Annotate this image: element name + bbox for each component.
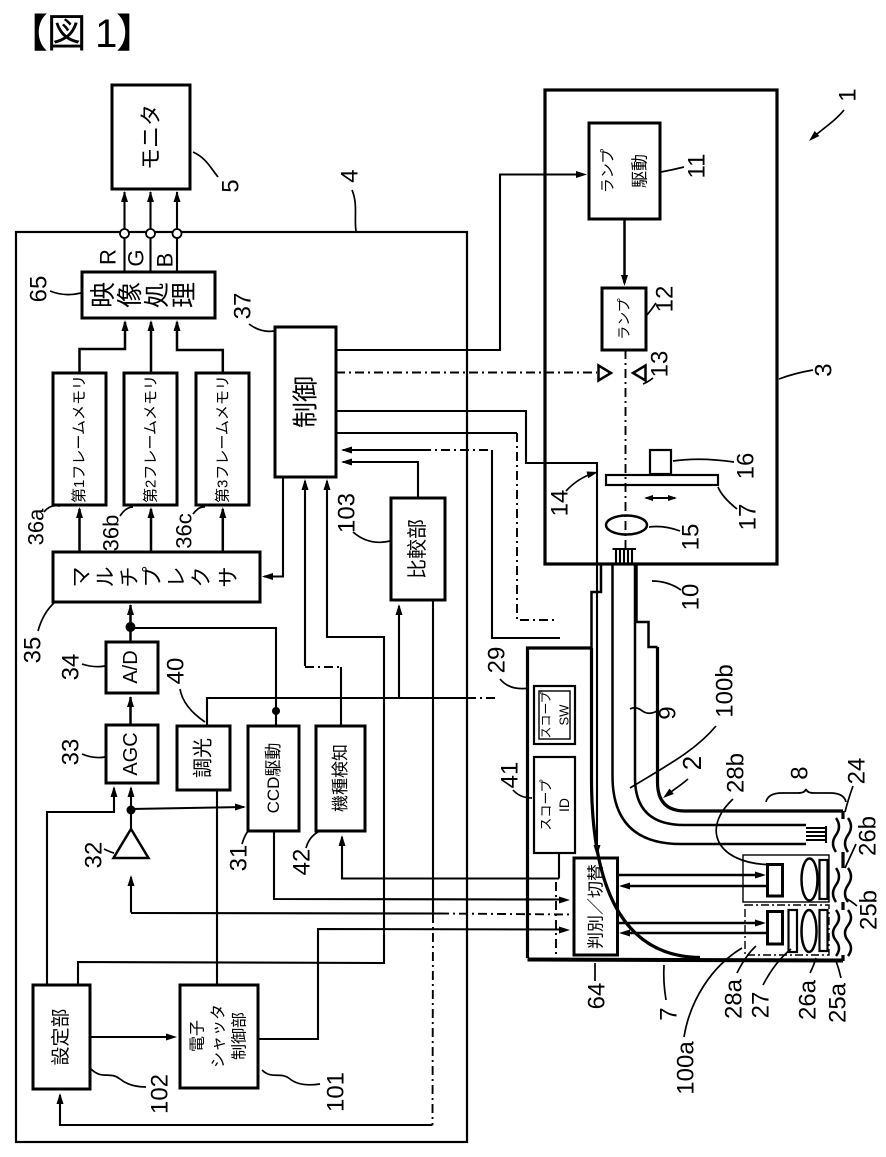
CCD 28b — [768, 865, 783, 897]
svg-text:33: 33 — [58, 739, 85, 766]
svg-text:チ: チ — [119, 567, 142, 588]
svg-text:第1フレームメモリ: 第1フレームメモリ — [70, 375, 88, 503]
wire memory1 to video processing — [80, 322, 126, 373]
wire control scope-sw line a — [336, 432, 517, 434]
scope switch box 29 スコープSW — [534, 686, 575, 744]
distal end face segments — [841, 811, 844, 819]
wire control to lamp drive — [336, 175, 584, 351]
svg-text:65: 65 — [26, 276, 53, 303]
svg-text:A/D: A/D — [120, 650, 142, 683]
svg-text:ク: ク — [191, 567, 214, 588]
shutter control box 101 電子シャッタ制御部 — [180, 985, 258, 1088]
control box 37 制御 — [275, 327, 336, 477]
svg-text:G: G — [124, 249, 149, 266]
wire comparator input tap — [398, 606, 400, 698]
svg-text:13: 13 — [647, 351, 674, 378]
node contact — [173, 229, 182, 238]
AD converter box 34 — [106, 642, 158, 693]
optical unit a boundary 100a — [745, 905, 829, 955]
AGC box 33 — [106, 725, 158, 783]
wire dimming to shutter control — [216, 790, 218, 985]
svg-text:27: 27 — [748, 992, 775, 1019]
condenser lens 15 — [606, 516, 647, 535]
svg-text:ル: ル — [95, 567, 118, 588]
scope plug light guide hatch — [613, 548, 637, 550]
svg-text:37: 37 — [230, 293, 257, 320]
video processing box 65 映像処理 — [82, 272, 215, 318]
svg-text:モニタ: モニタ — [139, 104, 164, 170]
svg-text:機種検知: 機種検知 — [331, 744, 350, 812]
svg-text:41: 41 — [497, 762, 524, 789]
lens 26b — [802, 859, 818, 901]
svg-text:第3フレームメモリ: 第3フレームメモリ — [213, 375, 231, 503]
svg-text:ランプ: ランプ — [600, 149, 617, 194]
svg-text:100a: 100a — [673, 1041, 700, 1095]
svg-text:26a: 26a — [795, 979, 822, 1020]
frame memory box 36b 第2フレームメモリ — [124, 373, 177, 505]
comparator box 103 比較部 — [391, 498, 445, 600]
wire AD video tap to CCD drive — [131, 628, 277, 726]
model detect box 42 機種検知 — [316, 726, 365, 831]
svg-text:電子: 電子 — [189, 1020, 207, 1052]
wire CCD drive to discriminator — [274, 831, 566, 900]
monitor box 5 — [112, 85, 190, 189]
wire comparator to control — [343, 462, 418, 498]
svg-text:10: 10 — [678, 584, 705, 611]
scope cord inner light guide lines — [635, 565, 806, 825]
lens 26a — [802, 910, 817, 952]
svg-text:理: 理 — [169, 282, 199, 308]
svg-text:8: 8 — [787, 766, 814, 779]
svg-text:16: 16 — [733, 453, 760, 480]
svg-text:35: 35 — [20, 637, 47, 664]
scope plug outline 10 — [592, 564, 602, 648]
svg-text:処: 処 — [142, 282, 172, 308]
svg-text:第2フレームメモリ: 第2フレームメモリ — [142, 375, 160, 503]
svg-text:11: 11 — [684, 154, 711, 179]
svg-text:15: 15 — [678, 524, 705, 551]
scope id box 41 スコープID — [534, 757, 575, 853]
svg-text:設定部: 設定部 — [50, 1008, 72, 1065]
iris arrows 13 — [599, 366, 612, 381]
svg-text:25a: 25a — [825, 982, 852, 1023]
svg-text:103: 103 — [334, 493, 361, 533]
svg-text:102: 102 — [147, 1074, 174, 1114]
lamp drive box 11 ランプ駆動 — [589, 123, 660, 219]
svg-text:4: 4 — [337, 169, 364, 182]
svg-text:R: R — [96, 249, 121, 265]
scope bottom edge 7 — [528, 960, 844, 961]
wire CCD signal to amp — [131, 912, 440, 915]
iris motor 16 — [650, 450, 671, 474]
svg-text:40: 40 — [163, 658, 190, 685]
wire control to multiplexer — [264, 477, 283, 577]
wire amp junction to CCD drive — [131, 807, 244, 809]
wire video level line — [207, 698, 467, 726]
svg-text:スコープ: スコープ — [539, 691, 553, 738]
wire amp out junction — [127, 806, 136, 815]
wire CCD 28b to discriminator — [623, 885, 766, 888]
CCD 28a — [768, 912, 783, 945]
lamp box 12 ランプ — [602, 288, 646, 350]
scope connector housing — [528, 648, 592, 958]
svg-text:駆動: 駆動 — [631, 154, 650, 188]
filter 27 — [789, 910, 798, 952]
multiplexer box 35 マルチプレクサ — [53, 552, 260, 602]
scope cord walls 9 — [658, 647, 844, 811]
svg-text:調光: 調光 — [192, 738, 215, 778]
wire AGC to AD — [129, 697, 132, 725]
svg-text:3: 3 — [811, 363, 838, 376]
wire RGB to monitor — [149, 192, 151, 272]
svg-text:36a: 36a — [24, 508, 49, 545]
wire memory2 to video processing — [150, 322, 153, 373]
iris plate 17 — [606, 475, 718, 485]
svg-text:100b: 100b — [712, 664, 739, 717]
svg-text:32: 32 — [81, 842, 108, 869]
wire scope-sw line b to control — [343, 449, 422, 451]
svg-text:12: 12 — [652, 286, 679, 313]
svg-text:像: 像 — [115, 282, 145, 308]
iris move arrows — [646, 497, 675, 499]
svg-text:9: 9 — [655, 706, 682, 719]
svg-text:7: 7 — [656, 1007, 683, 1020]
wire AD to multiplexer with junction — [129, 605, 132, 642]
svg-text:CCD駆動: CCD駆動 — [264, 743, 283, 814]
wire RGB to monitor — [176, 192, 178, 272]
svg-text:制御部: 制御部 — [231, 1012, 249, 1060]
svg-text:ランプ: ランプ — [616, 298, 632, 340]
svg-text:スコープ: スコープ — [539, 779, 554, 830]
frame memory box 36a 第1フレームメモリ — [53, 373, 106, 505]
frame memory box 36c 第3フレームメモリ — [196, 373, 249, 505]
svg-text:29: 29 — [484, 647, 511, 674]
wire scope id net to control — [78, 481, 384, 985]
wire memory3 to video processing — [177, 322, 223, 373]
node dot on CCD drive line — [272, 707, 280, 715]
svg-text:B: B — [153, 253, 178, 268]
node contact — [146, 229, 155, 238]
svg-text:31: 31 — [226, 845, 253, 872]
svg-text:36b: 36b — [99, 515, 124, 552]
svg-text:101: 101 — [323, 1072, 350, 1112]
wire control to discriminator top — [336, 411, 597, 853]
wire discriminator to CCD 28a — [618, 922, 763, 925]
svg-text:26b: 26b — [855, 816, 882, 856]
svg-text:64: 64 — [584, 983, 611, 1010]
svg-text:1: 1 — [835, 88, 862, 101]
wire scope id branch to model detect — [342, 837, 559, 879]
amplifier 32 — [114, 829, 149, 858]
svg-text:比較部: 比較部 — [406, 519, 429, 579]
wire setting to AGC — [47, 788, 114, 985]
setting box 102 設定部 — [33, 985, 90, 1089]
svg-text:プ: プ — [142, 567, 165, 588]
node contact — [120, 229, 129, 238]
svg-text:36c: 36c — [172, 513, 197, 548]
svg-text:レ: レ — [166, 567, 189, 588]
svg-text:AGC: AGC — [120, 732, 142, 775]
svg-text:【図 1】: 【図 1】 — [8, 12, 156, 56]
processor unit box 4 — [16, 232, 467, 1142]
light guide exit hatch — [825, 826, 827, 843]
svg-text:25b: 25b — [856, 890, 883, 930]
svg-text:2: 2 — [677, 756, 707, 770]
svg-text:34: 34 — [58, 654, 85, 681]
svg-text:判別／切替: 判別／切替 — [587, 864, 606, 949]
wire multiplexer to memory — [78, 509, 81, 552]
svg-text:28a: 28a — [721, 978, 748, 1019]
wire model detect to control dash-dot — [304, 481, 306, 666]
wire comparator output to setting — [432, 600, 434, 914]
svg-text:ID: ID — [556, 798, 572, 812]
svg-text:制御: 制御 — [291, 376, 321, 428]
svg-text:SW: SW — [557, 704, 572, 726]
discriminator box 64 判別／切替 — [574, 858, 618, 955]
svg-text:17: 17 — [735, 504, 762, 531]
dimming box 40 調光 — [177, 726, 230, 790]
node junction dot — [126, 622, 136, 632]
svg-text:5: 5 — [218, 179, 245, 192]
svg-text:24: 24 — [844, 758, 871, 785]
window 25a — [820, 910, 828, 951]
wire amp input — [130, 877, 132, 913]
CCD drive box 31 CCD駆動 — [248, 726, 299, 831]
svg-text:マ: マ — [71, 567, 94, 588]
body cavity wall 24 wavy — [833, 818, 839, 852]
svg-text:映: 映 — [88, 282, 118, 308]
window 25b — [820, 860, 828, 899]
optical axis dash-dot — [625, 350, 627, 549]
wire shutter control to discriminator — [258, 929, 566, 1039]
scope outer bend wall — [592, 648, 701, 958]
svg-text:42: 42 — [289, 849, 316, 876]
wire RGB to monitor — [123, 192, 125, 272]
wire control dimming dash-dot to iris arrows 13 — [336, 372, 597, 374]
wire scope id box stub — [558, 853, 560, 879]
contact boundary dash-dot — [555, 882, 557, 957]
svg-text:サ: サ — [218, 567, 241, 588]
wire multiplexer to memory — [150, 509, 153, 552]
svg-text:28b: 28b — [723, 753, 750, 793]
wire CCD 28a to discriminator — [623, 932, 766, 935]
optical unit b boundary 100b — [743, 855, 829, 902]
svg-text:14: 14 — [547, 490, 574, 517]
wire lamp drive to lamp — [623, 219, 626, 283]
wire setting to shutter control — [90, 1036, 174, 1038]
wire multiplexer to memory — [222, 509, 225, 552]
light source box 3 — [545, 90, 777, 564]
svg-text:シャッタ: シャッタ — [210, 1004, 228, 1068]
wire discriminator to CCD 28b — [618, 874, 763, 877]
